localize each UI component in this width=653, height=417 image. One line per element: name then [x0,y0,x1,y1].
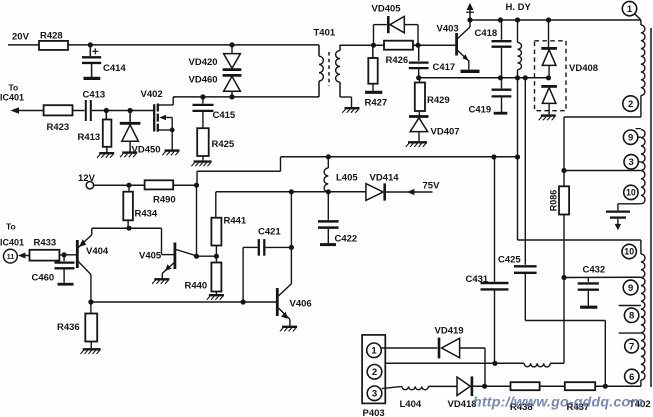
svg-text:T401: T401 [314,28,336,39]
svg-text:R428: R428 [40,31,63,42]
svg-text:R441: R441 [224,216,247,227]
svg-text:R425: R425 [212,139,235,150]
svg-text:2: 2 [372,367,377,378]
svg-text:V406: V406 [290,299,312,310]
svg-text:8: 8 [629,311,634,322]
svg-text:IC401: IC401 [0,238,24,248]
svg-text:R423: R423 [47,122,70,133]
svg-text:10: 10 [624,247,634,257]
svg-text:http://www.go-gddq.com: http://www.go-gddq.com [473,395,643,411]
svg-text:VD408: VD408 [569,63,598,74]
svg-text:V404: V404 [86,246,109,257]
svg-text:R429: R429 [427,95,450,106]
svg-text:V403: V403 [437,24,459,35]
svg-text:10: 10 [626,188,636,198]
svg-text:IC401: IC401 [0,93,24,103]
svg-text:1: 1 [371,346,377,357]
svg-text:VD405: VD405 [372,4,402,15]
svg-text:V405: V405 [139,251,162,262]
svg-text:R434: R434 [135,209,158,220]
svg-text:VD407: VD407 [431,127,460,138]
svg-text:R433: R433 [34,238,57,249]
svg-text:C413: C413 [83,90,106,101]
svg-text:6: 6 [629,372,634,383]
svg-text:C417: C417 [433,62,456,73]
svg-text:9: 9 [628,133,633,144]
svg-text:3: 3 [629,157,634,168]
svg-text:VD419: VD419 [435,326,464,337]
svg-text:R436: R436 [57,322,80,333]
svg-text:75V: 75V [423,181,441,192]
svg-text:R426: R426 [386,55,409,66]
svg-text:C422: C422 [335,234,358,245]
svg-text:C460: C460 [32,273,55,284]
svg-text:R440: R440 [185,281,208,292]
svg-text:VD460: VD460 [189,75,218,86]
svg-text:11: 11 [7,254,15,261]
svg-text:3: 3 [372,389,377,400]
svg-text:C414: C414 [103,63,126,74]
svg-text:12V: 12V [78,173,96,184]
svg-text:C421: C421 [258,227,281,238]
svg-text:R427: R427 [365,98,388,109]
svg-text:VD414: VD414 [370,173,400,184]
svg-text:L404: L404 [400,399,422,410]
svg-text:C418: C418 [475,28,498,39]
svg-text:R086: R086 [549,190,559,212]
svg-text:H. DY: H. DY [506,2,532,13]
svg-text:R490: R490 [153,195,176,206]
svg-text:C431: C431 [466,274,489,285]
svg-text:C425: C425 [498,255,521,266]
svg-text:P403: P403 [363,408,385,417]
svg-text:C419: C419 [469,105,492,116]
svg-text:C432: C432 [583,265,606,276]
svg-text:To: To [6,222,16,232]
svg-text:7: 7 [629,341,634,352]
svg-text:VD450: VD450 [132,145,161,156]
svg-text:20V: 20V [12,32,30,43]
svg-text:To: To [9,83,19,93]
svg-text:R413: R413 [78,132,101,143]
svg-text:1: 1 [627,4,633,15]
svg-text:VD420: VD420 [189,57,218,68]
svg-text:2: 2 [628,99,633,110]
svg-text:C415: C415 [213,110,236,121]
svg-text:9: 9 [628,283,633,294]
svg-text:V402: V402 [141,89,163,100]
svg-text:L405: L405 [336,173,358,184]
